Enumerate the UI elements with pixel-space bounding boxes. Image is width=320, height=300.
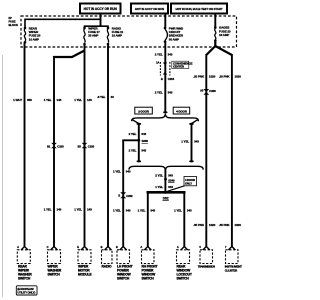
wire label 1 WHT 350 (13, 98, 32, 102)
svg-text:HOT IN ACCY OR RUN: HOT IN ACCY OR RUN (135, 7, 164, 11)
svg-text:350: 350 (27, 98, 32, 102)
svg-text:1 WHT: 1 WHT (13, 98, 22, 102)
svg-text:343: 343 (126, 170, 131, 174)
wire label 20 PNK 1020 (transmission upper) (193, 75, 215, 79)
connector transmission (198, 245, 215, 268)
svg-text:B: B (161, 77, 163, 81)
in-line connector C208 (200, 89, 216, 95)
splice S308 (137, 139, 148, 143)
svg-text:SWITCH: SWITCH (177, 277, 190, 281)
4-DOOR box (173, 107, 190, 114)
in-line connector C202 (118, 192, 133, 198)
wire gages fuse split (206, 41, 232, 56)
connector RH front power window switch (140, 245, 157, 281)
connector wiper motor module (77, 245, 92, 277)
svg-text:1020: 1020 (209, 223, 216, 227)
svg-text:343: 343 (194, 140, 199, 144)
wire label 1 YEL 343 (4-door) (181, 140, 199, 144)
svg-text:SWITCH: SWITCH (18, 277, 31, 281)
svg-text:A: A (140, 245, 142, 249)
wire label .8 YEL 43 (97, 95, 114, 99)
bus wire to rear wiper fuse (25, 19, 101, 27)
svg-text:1 YEL: 1 YEL (138, 208, 146, 212)
wire branch diagonal to washer switch (54, 51, 85, 58)
svg-text:4-DOOR: 4-DOOR (176, 110, 188, 114)
wire rear wiper feed (long left wire) (24, 43, 26, 247)
svg-text:B: B (116, 245, 118, 249)
svg-text:10 AMP: 10 AMP (112, 34, 122, 38)
svg-text:CENTER: CENTER (173, 65, 184, 69)
svg-text:343: 343 (168, 53, 173, 57)
wire 2-door branch (138, 124, 140, 162)
svg-text:SWITCH: SWITCH (48, 273, 61, 277)
svg-text:43: 43 (111, 95, 115, 99)
connector rear wiper/washer switch (17, 245, 32, 281)
svg-text:343: 343 (150, 208, 155, 212)
I/P fuse block dashed border (21, 16, 237, 47)
svg-text:S62: S62 (163, 196, 169, 200)
svg-text:ONLY: ONLY (185, 181, 192, 185)
header box HOT IN ACCY OR RUN (left) (80, 4, 121, 14)
svg-text:1020: 1020 (235, 75, 242, 79)
wire from left header box into fuse block (100, 14, 102, 27)
svg-text:SWITCH: SWITCH (142, 277, 155, 281)
svg-text:143: 143 (57, 208, 62, 212)
svg-text:CLUSTER: CLUSTER (225, 268, 238, 272)
svg-text:343: 343 (126, 209, 131, 213)
wire label 1 YEL 343 (upper) (113, 170, 131, 174)
fuse GAGES FUSE 20 (214, 26, 231, 42)
svg-text:1 YEL: 1 YEL (44, 98, 52, 102)
wire 4-door branch (191, 124, 193, 162)
wire merged drop to S249 (164, 169, 166, 192)
wire power window feed to convenience center (164, 42, 166, 113)
wire label 20 PNK 1020 (cluster upper) (219, 75, 241, 79)
svg-text:S308: S308 (142, 139, 149, 143)
scan artifact left border line (2, 55, 4, 297)
svg-text:C208: C208 (209, 89, 216, 93)
svg-text:B3: B3 (78, 144, 82, 148)
wire from middle header box (164, 14, 166, 28)
svg-text:343: 343 (168, 174, 173, 178)
in-line connector C100 (wiper motor wire) (78, 143, 95, 148)
svg-text:343: 343 (141, 132, 146, 136)
svg-text:RADIO: RADIO (102, 265, 112, 269)
connector instrument cluster (225, 245, 242, 272)
wire branch from S308 to LH front window switch (123, 139, 139, 142)
svg-text:1 YEL: 1 YEL (44, 208, 52, 212)
wire label 2 YEL 343 (2-door upper) (129, 132, 147, 136)
svg-text:2 YEL: 2 YEL (155, 53, 163, 57)
wire label 2 YEL 343 (upper) (155, 53, 173, 57)
wire rear lockout leg (183, 192, 185, 247)
wire label 1 YEL 143 lower (washer) (44, 208, 62, 212)
svg-text:25 AMP: 25 AMP (88, 34, 98, 38)
splice bus S62 (147, 191, 186, 201)
svg-text:2 YEL: 2 YEL (129, 132, 137, 136)
fuse RADIO FUSE 11 (107, 26, 124, 45)
svg-text:343: 343 (168, 90, 173, 94)
svg-text:SWITCH: SWITCH (117, 277, 130, 281)
wire label 2 YEL 343 (above S249) (155, 174, 173, 178)
wire label 1 YEL 143 (wiper motor) (74, 98, 92, 102)
svg-text:.35 PNK: .35 PNK (219, 223, 231, 227)
wire label 2 YEL 343 (2-door lower) (129, 148, 147, 152)
circuit breaker PWR WND (164, 26, 184, 43)
svg-text:C100: C100 (88, 144, 95, 148)
wire from right header box (214, 14, 216, 28)
svg-text:143: 143 (87, 208, 92, 212)
svg-text:C: C (47, 245, 49, 249)
svg-text:1 YEL: 1 YEL (155, 185, 163, 189)
header box HOT IN ACCY OR RUN (middle) (131, 4, 168, 14)
connector radio (101, 245, 112, 269)
fuse REAR WIPER FUSE 23 (24, 26, 41, 43)
wire transmission drop (205, 54, 207, 247)
svg-text:1 YEL: 1 YEL (113, 209, 121, 213)
svg-text:1 YEL: 1 YEL (74, 208, 82, 212)
svg-text:S249: S249 (168, 178, 175, 182)
wire label 1 YEL 143 lower (wiper motor) (74, 208, 92, 212)
wire washer switch drop (53, 56, 55, 247)
svg-text:E: E (77, 245, 79, 249)
wire label 1 YEL 343 (lockout leg) (174, 208, 192, 212)
svg-text:A3: A3 (200, 89, 204, 93)
svg-text:143: 143 (87, 98, 92, 102)
wire instrument cluster drop (231, 54, 233, 247)
svg-text:B: B (118, 194, 120, 198)
svg-text:B1: B1 (47, 144, 51, 148)
I/P fuse block label (9, 16, 19, 27)
svg-text:.20 PNK: .20 PNK (219, 75, 231, 79)
svg-text:HOT IN RUN, BULB TEST OR START: HOT IN RUN, BULB TEST OR START (175, 7, 222, 11)
header box HOT IN RUN BULB TEST OR START (right) (171, 4, 227, 14)
wire label 1 YEL 343 (RH leg) (138, 208, 156, 212)
european/utility note box (16, 286, 37, 295)
svg-text:TRANSMISSION: TRANSMISSION (198, 264, 215, 268)
svg-text:1 YEL: 1 YEL (174, 208, 182, 212)
fuse WIPER FUSE 17 (83, 26, 100, 45)
svg-text:343: 343 (168, 185, 173, 189)
splice S249 (164, 178, 175, 182)
wire RH front window switch leg (147, 192, 149, 247)
svg-text:1 YEL: 1 YEL (74, 98, 82, 102)
svg-text:.8 YEL: .8 YEL (97, 95, 106, 99)
svg-text:1 YEL: 1 YEL (113, 170, 121, 174)
svg-text:C202: C202 (126, 194, 133, 198)
svg-text:30 AMP: 30 AMP (169, 37, 179, 41)
svg-text:10 AMP: 10 AMP (29, 37, 39, 41)
svg-text:1 YEL: 1 YEL (181, 140, 189, 144)
svg-text:C100: C100 (57, 144, 64, 148)
svg-text:.20 PNK: .20 PNK (193, 75, 205, 79)
4 DOOR ONLY callout box (168, 177, 197, 192)
svg-text:1A: 1A (156, 60, 159, 64)
convenience center label box (172, 61, 193, 68)
wire wiper fuse main drop (84, 44, 86, 247)
merging brace (129, 166, 203, 169)
svg-text:1020: 1020 (209, 75, 216, 79)
svg-text:2-DOOR: 2-DOOR (138, 110, 150, 114)
svg-text:UTILITY ONLY): UTILITY ONLY) (17, 291, 35, 295)
connector wiper washer switch (47, 245, 62, 277)
wire label 1 YEL 343 (below S249) (155, 185, 173, 189)
svg-text:MODULE: MODULE (78, 273, 92, 277)
svg-text:1020: 1020 (235, 223, 242, 227)
wire label 1 YEL 143 (washer) (44, 98, 62, 102)
svg-text:BLOCK: BLOCK (9, 23, 19, 27)
svg-text:143: 143 (57, 98, 62, 102)
wire radio drop (107, 44, 109, 247)
convenience center in-line connector (160, 62, 170, 76)
svg-text:B: B (101, 245, 103, 249)
svg-text:343: 343 (187, 208, 192, 212)
svg-text:10 AMP: 10 AMP (219, 33, 229, 37)
wire label 35 PNK 1020 (transmission lower) (193, 223, 215, 227)
wire label 35 PNK 1020 (cluster lower) (219, 223, 241, 227)
svg-text:2 YEL: 2 YEL (155, 90, 163, 94)
svg-text:2 YEL: 2 YEL (155, 174, 163, 178)
svg-text:343: 343 (141, 148, 146, 152)
wire LH front window switch drop (122, 140, 124, 247)
splitting brace (2-door / 4-door alternatives) (132, 115, 199, 124)
svg-text:.35 PNK: .35 PNK (193, 223, 205, 227)
in-line connector C100 (washer wire) (47, 143, 64, 148)
connector rear window lockout switch (177, 245, 192, 281)
wire label 1 YEL 343 (lower) (113, 209, 131, 213)
svg-text:A: A (177, 245, 179, 249)
2-DOOR box (135, 107, 153, 114)
svg-text:A: A (17, 245, 19, 249)
connector LH front power window switch (116, 245, 133, 281)
svg-text:2 YEL: 2 YEL (129, 148, 137, 152)
bus wire to wiper and radio fuses (85, 26, 109, 27)
svg-text:C204: C204 (168, 77, 175, 81)
svg-text:HOT IN ACCY OR RUN: HOT IN ACCY OR RUN (84, 7, 118, 11)
wire label 2 YEL 343 (below convenience center) (155, 90, 173, 94)
